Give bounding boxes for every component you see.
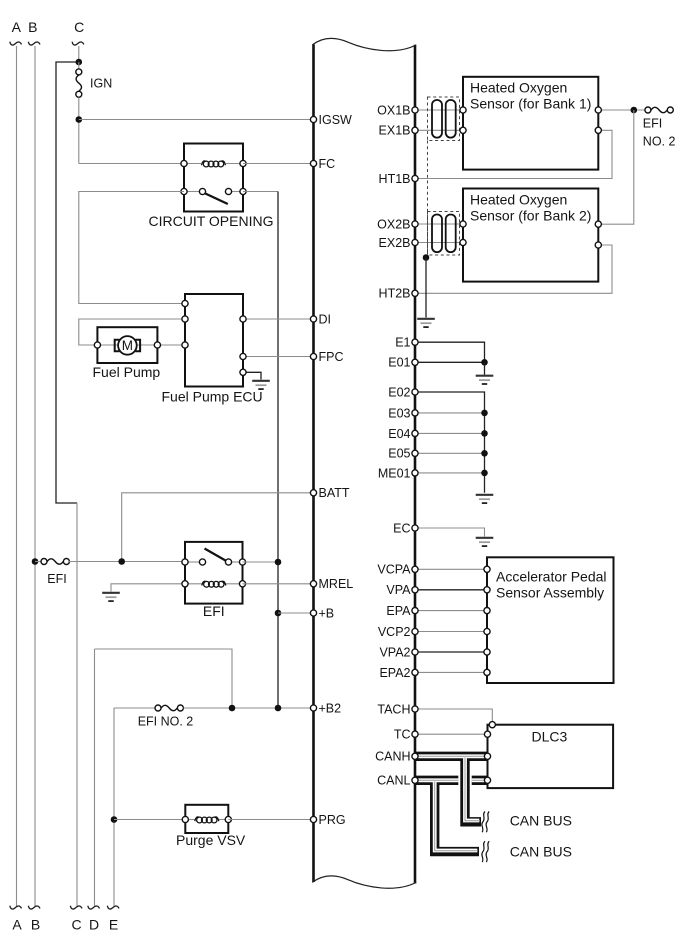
CAN branch B center line <box>435 782 478 851</box>
pin HO2S2 right 2 <box>595 242 601 248</box>
pin VPA2 <box>412 649 418 655</box>
ground FP ECU <box>252 381 270 389</box>
svg-text:Heated Oxygen: Heated Oxygen <box>470 192 567 208</box>
wire EX2B <box>415 242 463 244</box>
pin E05 <box>412 450 418 456</box>
relay switch blade <box>205 193 228 204</box>
pin FP ECU left 1 <box>182 300 188 306</box>
wire PRG left <box>114 819 185 821</box>
svg-text:+B: +B <box>319 606 335 620</box>
svg-text:CANH: CANH <box>375 750 410 764</box>
svg-text:MREL: MREL <box>319 577 354 591</box>
svg-text:EFI: EFI <box>643 117 662 131</box>
svg-text:PRG: PRG <box>319 813 346 827</box>
svg-text:A: A <box>12 917 22 933</box>
svg-text:FPC: FPC <box>319 350 344 364</box>
CAN CANL center line left <box>415 779 458 781</box>
svg-text:E04: E04 <box>388 427 410 441</box>
fuse EFI NO. 2 <box>155 705 183 711</box>
wire FP ECU ground stub <box>243 372 261 379</box>
svg-text:Fuel Pump: Fuel Pump <box>93 364 161 380</box>
connector bank1 pill left <box>432 100 442 138</box>
wire OX1B <box>415 109 463 111</box>
shield dashed around bank2 connector <box>428 212 460 256</box>
pin HO2S2 left 2 <box>460 239 466 245</box>
svg-text:EPA2: EPA2 <box>379 666 410 680</box>
wire HO2S2 heater to HT2B <box>415 245 612 293</box>
wire E01 <box>415 361 485 363</box>
pin fuel pump left <box>94 342 100 348</box>
fuse EFI <box>41 559 69 565</box>
node junction D/+B2 <box>229 705 236 712</box>
pin EPA2 <box>412 669 418 675</box>
svg-text:BATT: BATT <box>319 486 350 500</box>
pin DI <box>310 316 316 322</box>
node junction E03 <box>481 410 488 417</box>
wire BATT <box>122 493 314 562</box>
wire E to EFI NO.2 fuse <box>114 707 155 709</box>
pin HT2B <box>412 290 418 296</box>
svg-text:E03: E03 <box>388 406 410 420</box>
wire FP ECU to pump left <box>79 319 185 345</box>
svg-text:TC: TC <box>394 728 411 742</box>
CAN branch B halo <box>435 787 479 852</box>
CAN CANL core right <box>472 778 488 782</box>
relay EFI box <box>185 542 243 604</box>
wire E1 <box>415 342 485 362</box>
wire TACH <box>415 709 492 722</box>
relay coil lead left <box>184 163 201 165</box>
wire E04 <box>415 432 485 434</box>
svg-text:ME01: ME01 <box>378 466 411 480</box>
relay EFI switch contact left <box>199 559 205 565</box>
node junction E05 <box>481 450 488 457</box>
pin HO2S2 right 1 <box>595 221 601 227</box>
box DLC3 <box>488 725 614 788</box>
svg-text:B: B <box>31 917 40 933</box>
box Heated Oxygen Sensor Bank 2 <box>463 189 598 282</box>
svg-text:IGN: IGN <box>90 77 112 91</box>
node junction +B <box>275 610 282 617</box>
wire FC from relay to ECU <box>243 163 314 165</box>
CAN branch B pipe <box>435 780 479 851</box>
wire VCPA <box>415 568 487 570</box>
svg-text:Sensor (for Bank 2): Sensor (for Bank 2) <box>470 208 591 224</box>
svg-text:VCPA: VCPA <box>377 563 411 577</box>
pin APS VPA <box>484 587 490 593</box>
pin E04 <box>412 430 418 436</box>
CAN bus CANL pipe <box>415 776 488 785</box>
CAN break B inner <box>486 841 489 862</box>
pin MREL <box>310 581 316 587</box>
pin Purge VSV right <box>225 816 231 822</box>
relay EFI switch blade <box>205 549 226 561</box>
CAN branch B core <box>435 782 478 851</box>
wire D branch over to +B2 row <box>95 649 233 708</box>
svg-text:Heated Oxygen: Heated Oxygen <box>470 80 567 96</box>
svg-text:OX1B: OX1B <box>377 103 410 117</box>
relay EFI switch lead left <box>185 561 200 563</box>
svg-text:+B2: +B2 <box>319 701 342 715</box>
svg-text:FC: FC <box>319 157 336 171</box>
wire through fuel pump <box>97 344 157 346</box>
svg-text:VPA: VPA <box>386 583 411 597</box>
svg-text:D: D <box>89 917 99 933</box>
ground E01 <box>476 376 494 384</box>
wire IGSW <box>79 119 314 121</box>
Purge VSV coil lead right <box>219 819 229 821</box>
svg-text:DLC3: DLC3 <box>532 729 568 745</box>
Purge VSV coil lead left <box>185 819 195 821</box>
wire break D bottom <box>88 906 100 909</box>
pin +B2 <box>310 705 316 711</box>
pin PRG <box>310 816 316 822</box>
ground EFI relay coil <box>102 593 120 601</box>
relay coil pin right <box>240 160 246 166</box>
wire shield to ground <box>425 258 427 318</box>
CAN branch A halo <box>465 763 481 822</box>
wire OX2B <box>415 223 463 225</box>
relay EFI switch pin left <box>182 559 188 565</box>
svg-text:Sensor Assembly: Sensor Assembly <box>496 585 604 601</box>
shield dashed around bank1 connector <box>428 97 460 141</box>
svg-text:EFI NO. 2: EFI NO. 2 <box>138 715 194 729</box>
wire FC feed to relay coil <box>79 163 184 165</box>
node junction ME01 <box>481 470 488 477</box>
svg-text:Purge VSV: Purge VSV <box>176 832 246 848</box>
pin EX2B ECM <box>412 239 418 245</box>
node junction +B net switch <box>275 559 282 566</box>
svg-text:EX2B: EX2B <box>379 236 411 250</box>
svg-text:Sensor (for Bank 1): Sensor (for Bank 1) <box>470 96 591 112</box>
svg-text:NO. 2: NO. 2 <box>643 135 676 149</box>
pin IGSW <box>310 116 316 122</box>
wire EPA2 <box>415 671 487 673</box>
svg-text:E02: E02 <box>388 385 410 399</box>
svg-text:B: B <box>28 19 37 35</box>
pin DLC3 top <box>489 722 495 728</box>
svg-text:CAN BUS: CAN BUS <box>510 844 572 860</box>
wire break C bottom <box>70 906 82 909</box>
svg-text:VCP2: VCP2 <box>378 625 411 639</box>
wire break A bottom <box>10 906 22 909</box>
wire ME01 <box>415 472 485 474</box>
wire MREL <box>243 583 314 585</box>
node junction C/IGN <box>76 59 83 66</box>
svg-text:E05: E05 <box>388 447 410 461</box>
svg-text:CANL: CANL <box>377 774 410 788</box>
ECM bottom wavy edge <box>312 876 416 888</box>
wire E05 <box>415 452 485 454</box>
pin HO2S1 right 2 <box>595 127 601 133</box>
wire IGN feed upper <box>78 62 80 69</box>
pin FP ECU right 2 <box>240 353 246 359</box>
svg-text:HT2B: HT2B <box>379 287 411 301</box>
CAN CANL core left <box>415 778 458 782</box>
ECM left edge <box>312 45 315 883</box>
CAN CANH core <box>415 754 488 758</box>
svg-text:DI: DI <box>319 312 332 326</box>
pin FP ECU left 2 <box>182 316 188 322</box>
shield dashed tail bank1 <box>427 141 429 256</box>
svg-text:M: M <box>122 338 133 353</box>
relay switch pin left <box>181 188 187 194</box>
fuse IGN <box>76 69 82 97</box>
pin E03 <box>412 410 418 416</box>
pin FP ECU right 3 <box>240 369 246 375</box>
ECM top wavy edge <box>312 38 416 50</box>
wire bus E vertical <box>113 708 115 906</box>
pin TC <box>412 731 418 737</box>
pin TACH <box>412 706 418 712</box>
relay coil pin left <box>181 160 187 166</box>
pin OX1B ECM <box>412 107 418 113</box>
node junction E1/E01 <box>481 359 488 366</box>
CAN branch A pipe <box>465 756 481 822</box>
connector bank2 pill left <box>432 215 442 253</box>
node junction IGSW <box>76 116 83 123</box>
wire EFI NO.2 down to bank2 <box>598 110 634 224</box>
connector bank2 pill right <box>446 215 456 253</box>
wire FPC <box>243 356 314 358</box>
motor bracket right <box>135 340 140 352</box>
pin fuel pump right <box>154 342 160 348</box>
fuse EFI NO. 2 top <box>645 107 673 113</box>
relay EFI switch pin right <box>239 559 245 565</box>
wire break C top <box>72 42 84 45</box>
pin Purge VSV left <box>182 816 188 822</box>
node junction E04 <box>481 430 488 437</box>
svg-text:E: E <box>109 917 118 933</box>
ECM right edge <box>414 45 417 884</box>
CAN CANL center line right <box>472 779 488 781</box>
box Purge VSV <box>185 805 228 833</box>
pin VCPA <box>412 566 418 572</box>
pin E01 <box>412 359 418 365</box>
pin DLC3 TC <box>484 731 490 737</box>
pin ME01 <box>412 470 418 476</box>
wire break B top <box>28 42 40 45</box>
wire break E bottom <box>107 906 119 909</box>
wire EX1B <box>415 129 463 131</box>
relay EFI coil lead left <box>185 583 202 585</box>
svg-text:Accelerator Pedal: Accelerator Pedal <box>496 569 607 585</box>
wire EC <box>415 528 485 537</box>
node junction PRG on bus E <box>111 816 118 823</box>
ground ME01 <box>476 495 494 503</box>
pin HO2S2 left 1 <box>460 221 466 227</box>
pin HT1B <box>412 175 418 181</box>
box Fuel Pump ECU <box>185 294 243 387</box>
wire VPA <box>415 589 487 591</box>
svg-text:E1: E1 <box>395 336 410 350</box>
relay CIRCUIT OPENING box <box>184 144 243 212</box>
relay EFI switch contact right <box>225 559 231 565</box>
wire B to EFI fuse <box>35 561 41 563</box>
node junction BATT/EFI <box>118 558 125 565</box>
svg-text:EFI: EFI <box>47 572 66 586</box>
pin CANH ECM <box>412 753 418 759</box>
box Heated Oxygen Sensor Bank 1 <box>463 77 598 170</box>
node junction EFI NO.2 <box>631 107 638 114</box>
relay switch contact right <box>225 188 231 194</box>
pin EPA <box>412 608 418 614</box>
pin APS VCP2 <box>484 628 490 634</box>
connector bank1 pill right <box>446 100 456 138</box>
coil Purge VSV <box>195 817 219 823</box>
wire E03 <box>415 412 485 414</box>
svg-text:EPA: EPA <box>386 604 411 618</box>
CAN break A inner <box>486 811 489 832</box>
wire E01 ground stub <box>484 362 486 374</box>
wire DI <box>243 318 314 320</box>
relay switch contact left <box>199 188 205 194</box>
CAN break A outer <box>482 811 485 832</box>
svg-text:A: A <box>12 19 22 35</box>
pin APS EPA <box>484 608 490 614</box>
svg-text:OX2B: OX2B <box>377 217 410 231</box>
pin DLC3 CANH <box>484 753 490 759</box>
wire VCP2 <box>415 631 487 633</box>
pin HO2S1 left 2 <box>460 127 466 133</box>
ground sensor shield <box>417 319 435 327</box>
pin DLC3 CANL <box>484 777 490 783</box>
pin FP ECU right 1 <box>240 316 246 322</box>
wire HO2S1 heater to HT1B <box>415 130 612 178</box>
box Accelerator Pedal Sensor Assembly <box>487 557 614 683</box>
wire +B net vertical <box>277 192 279 709</box>
svg-text:HT1B: HT1B <box>379 172 411 186</box>
pin EC <box>412 525 418 531</box>
wire EFI fuse to relay <box>69 561 185 563</box>
CAN break B outer <box>482 841 485 862</box>
pin APS VCPA <box>484 566 490 572</box>
pin APS VPA2 <box>484 649 490 655</box>
box Fuel Pump <box>97 327 157 363</box>
wire EPA <box>415 610 487 612</box>
svg-text:EX1B: EX1B <box>379 124 411 138</box>
wire break A top <box>10 42 22 45</box>
pin FPC <box>310 353 316 359</box>
relay switch lead left <box>184 191 200 193</box>
pin VCP2 <box>412 628 418 634</box>
wire EFI switch to +B net <box>243 561 279 563</box>
pin VPA <box>412 587 418 593</box>
relay CIRCUIT OPENING coil <box>202 161 226 167</box>
pin OX2B ECM <box>412 221 418 227</box>
svg-text:CIRCUIT OPENING: CIRCUIT OPENING <box>149 213 274 229</box>
pin APS EPA2 <box>484 669 490 675</box>
relay EFI coil <box>202 581 226 587</box>
wire PRG right <box>228 819 313 821</box>
wire EFI NO.2 fuse to +B2 <box>184 707 314 709</box>
wire bus B vertical <box>34 46 36 906</box>
wire TC <box>415 733 488 735</box>
wire HO2S1 supply to fuse junction <box>598 109 645 111</box>
wire E02 <box>415 392 485 493</box>
relay switch lead right <box>231 191 243 193</box>
wire break B bottom <box>28 906 40 909</box>
svg-text:Fuel Pump ECU: Fuel Pump ECU <box>162 389 263 405</box>
relay EFI switch lead right <box>231 561 243 563</box>
wire bus C top segment <box>78 46 80 62</box>
wire IGN fuse to IGSW junction <box>78 97 80 163</box>
wire bus D vertical <box>94 649 96 906</box>
pin HO2S1 left 1 <box>460 107 466 113</box>
svg-text:EFI: EFI <box>203 603 225 619</box>
pin EX1B ECM <box>412 127 418 133</box>
wire bus A vertical <box>16 46 18 906</box>
svg-text:IGSW: IGSW <box>319 113 353 127</box>
CAN bus CANH pipe <box>415 752 488 761</box>
svg-text:VPA2: VPA2 <box>379 645 410 659</box>
wire VPA2 <box>415 651 487 653</box>
pin E1 <box>412 339 418 345</box>
svg-text:TACH: TACH <box>377 702 410 716</box>
svg-text:CAN BUS: CAN BUS <box>510 813 572 829</box>
relay EFI coil lead right <box>226 583 243 585</box>
svg-text:C: C <box>74 19 84 35</box>
wire C branch dark: left jog down to bottom <box>56 62 79 503</box>
CAN branch A core <box>465 758 479 821</box>
relay coil lead right <box>226 163 243 165</box>
pin E02 <box>412 389 418 395</box>
CAN branch A center line <box>465 758 480 821</box>
pin HO2S1 right 1 <box>595 107 601 113</box>
relay EFI coil pin left <box>182 581 188 587</box>
pin CANL ECM <box>412 777 418 783</box>
node junction +B net/+B2 <box>275 705 282 712</box>
wire +B stub <box>278 612 314 614</box>
wire relay switch to +B vertical <box>243 191 278 193</box>
wire pump right to FP ECU <box>157 344 185 346</box>
motor bracket left <box>115 340 120 352</box>
pin BATT <box>310 490 316 496</box>
relay EFI coil pin right <box>239 581 245 587</box>
relay switch pin right <box>240 188 246 194</box>
svg-text:E01: E01 <box>388 356 410 370</box>
svg-text:EC: EC <box>393 521 410 535</box>
wire EFI coil ground stub <box>111 584 185 592</box>
ground EC <box>476 538 494 546</box>
CAN CANH center line <box>415 755 488 757</box>
pin +B <box>310 610 316 616</box>
motor circle <box>118 336 137 355</box>
wire bus C lower segment <box>76 503 78 906</box>
node junction shield ground <box>423 254 430 261</box>
svg-text:C: C <box>71 917 81 933</box>
pin FC <box>310 160 316 166</box>
pin FP ECU left 3 <box>182 342 188 348</box>
wire relay switch to fuel pump ECU <box>79 192 185 304</box>
node junction EFI fuse on bus B <box>32 558 39 565</box>
